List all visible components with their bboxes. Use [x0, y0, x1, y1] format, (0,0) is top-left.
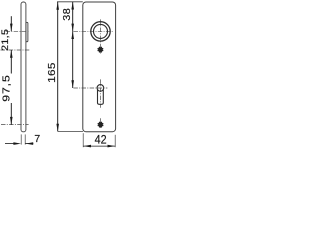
lever hole centerline vertical — [100, 19, 102, 53]
dim 38 line — [72, 2, 74, 32]
dim down arrow at y124.6 — [10, 117, 13, 125]
dim 21,5 down arrow — [10, 24, 13, 32]
lever hole outer circle — [91, 22, 110, 41]
dim 7 ext line left — [20, 134, 22, 144]
dim 165 down arrow — [56, 124, 59, 132]
dim 38 down arrow — [71, 24, 74, 32]
down arrow at y88 — [71, 80, 74, 88]
upper screw centerline — [1, 49, 30, 51]
dim 42 right arrow — [108, 145, 116, 148]
bottom screw centerline vertical — [100, 118, 102, 128]
keyhole centerline vertical — [99, 79, 101, 107]
svg-text:38: 38 — [62, 8, 72, 21]
side view boss — [26, 22, 28, 42]
lever hole centerline horizontal — [74, 30, 114, 32]
dim lever-to-key line — [72, 31, 74, 88]
keyhole circle — [97, 85, 104, 92]
top extension line — [57, 1, 83, 3]
svg-text:165: 165 — [47, 62, 58, 83]
side view plate profile — [21, 2, 26, 132]
bottom screw — [98, 122, 104, 128]
dim 42 ext line left — [82, 133, 84, 147]
dim 7 ext line right — [24, 134, 26, 144]
bottom extension line — [58, 131, 83, 133]
front plate — [83, 2, 116, 132]
svg-text:97,5: 97,5 — [1, 74, 12, 102]
dim 42 ext line right — [114, 135, 116, 147]
upper screw — [97, 47, 103, 53]
dim 42 line — [83, 145, 115, 147]
dim 38 up arrow — [71, 2, 74, 10]
dim 165 up arrow — [56, 2, 59, 10]
dim 7 right tail and arrow — [26, 143, 34, 145]
svg-text:7: 7 — [34, 134, 40, 145]
dim 7 left tail and arrow — [5, 143, 14, 145]
dim 165 line — [57, 2, 59, 132]
svg-text:21,5: 21,5 — [1, 29, 11, 51]
lower screw centerline — [1, 124, 29, 126]
keyhole centerline horizontal — [73, 87, 107, 89]
keyhole shaft — [98, 90, 104, 105]
dim 42 left arrow — [83, 145, 91, 148]
svg-text:42: 42 — [95, 133, 107, 147]
dim 97,5 line upper — [10, 50, 12, 74]
dim 21,5 line — [10, 16, 12, 31]
lever hole inner circle — [94, 24, 108, 38]
up arrow at y31.3 — [71, 31, 74, 39]
lever centerline side view — [6, 30, 30, 32]
dim 97,5 line lower — [10, 103, 12, 125]
dim up arrow at y50 — [10, 50, 13, 58]
